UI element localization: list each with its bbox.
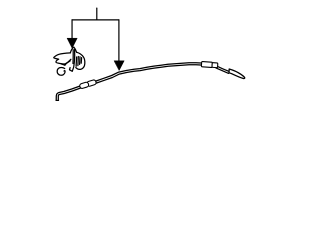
clip hatch 4 bbox=[80, 58, 82, 64]
cable end cap capsule bbox=[229, 69, 245, 79]
ferrule left (cable adjuster) bbox=[79, 79, 96, 89]
cable left end cap bbox=[56, 99, 59, 101]
bracket right leader bbox=[118, 20, 120, 61]
bracket left leader bbox=[71, 20, 73, 39]
arrowhead left bbox=[67, 38, 77, 48]
cable outer sheath top line bbox=[56, 63, 210, 101]
clip hatch 1 bbox=[75, 57, 78, 66]
clip hatch 2 bbox=[77, 57, 79, 66]
cable housing top line bbox=[217, 66, 230, 72]
bracket horizontal bbox=[72, 19, 119, 21]
cable housing bottom line bbox=[216, 68, 229, 74]
clip wing dash bbox=[61, 64, 65, 65]
clip top peak bbox=[70, 47, 76, 53]
clip left wing bbox=[54, 53, 71, 64]
clip hatch 3 bbox=[79, 57, 81, 65]
clip stem right edge bbox=[70, 50, 75, 72]
clip wing fold line bbox=[65, 61, 70, 65]
clip bottom curl bbox=[57, 67, 65, 75]
bracket tick bbox=[96, 8, 98, 20]
ferrule right bbox=[201, 61, 218, 67]
callout bracket bbox=[72, 8, 119, 61]
clip sketch bbox=[54, 47, 85, 75]
cable outer sheath bottom line bbox=[58, 65, 210, 101]
arrowhead right bbox=[114, 61, 124, 71]
clip stem left edge bbox=[72, 50, 74, 64]
clip right lobe bbox=[76, 52, 85, 69]
